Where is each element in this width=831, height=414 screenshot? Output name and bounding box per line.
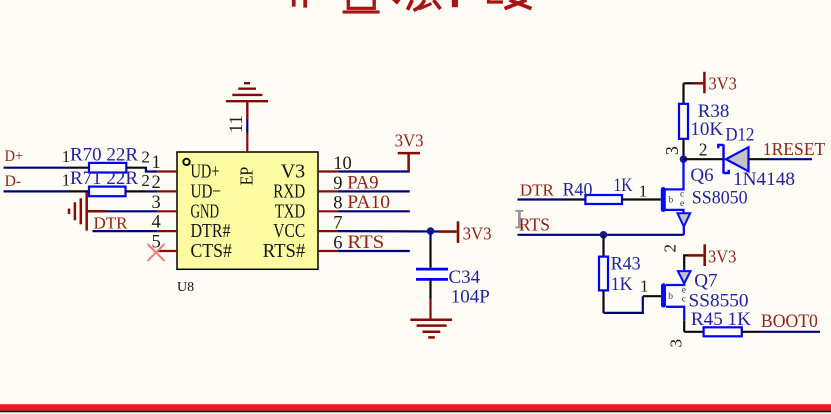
svg-text:R71 22R: R71 22R [70,168,138,189]
svg-text:2: 2 [151,173,160,193]
U8 left pin stubs (pins 1-5) [157,172,177,252]
power symbol 3V3 (top middle, T-bar style) [398,153,420,171]
U8 right pin stubs (pins 10-6) [318,172,338,252]
svg-text:3: 3 [667,339,686,348]
resistor R38 [679,104,688,139]
diode D12 triangle [726,147,749,171]
wire pin7 VCC [338,230,439,233]
wire DTR pin4 [93,230,158,232]
svg-text:GND: GND [191,200,220,222]
svg-text:D+: D+ [5,148,24,165]
U8 pin1 indicator circle [183,159,189,165]
svg-text:2: 2 [141,147,150,166]
svg-text:2: 2 [699,140,708,160]
junction RTS/R43 [600,231,608,239]
svg-text:RXD: RXD [273,181,305,203]
sheet title (partial, bottom of characters) [292,0,458,14]
wire node to D12 [684,158,724,160]
svg-text:U8: U8 [177,280,194,295]
svg-text:1: 1 [151,153,160,173]
svg-text:3V3: 3V3 [463,223,492,243]
wire EP to ground [246,120,248,133]
svg-text:DTR: DTR [520,180,555,199]
svg-text:1K: 1K [611,274,633,295]
svg-text:R70 22R: R70 22R [70,144,138,165]
svg-text:TXD: TXD [275,200,306,222]
no-ERC cross on pin5 CTS# [148,244,165,261]
svg-text:10K: 10K [690,119,723,140]
svg-text:3V3: 3V3 [395,131,424,151]
svg-text:BOOT0: BOOT0 [761,311,818,332]
diode D12 cathode bar [718,144,728,173]
svg-text:PA9: PA9 [347,172,378,193]
svg-text:c: c [682,294,686,304]
transistor Q6 SS8050 [661,190,666,210]
wire pin6 [338,250,410,252]
svg-text:2: 2 [661,244,680,253]
svg-text:11: 11 [227,115,247,133]
wire R70 to U8 pin1 [126,168,146,169]
svg-text:VCC: VCC [273,220,305,242]
U8 right pin numbers [333,154,352,254]
svg-text:R40: R40 [563,179,593,200]
svg-text:SS8050: SS8050 [692,188,748,209]
wire junction to R43 [602,235,604,257]
svg-text:DTR#: DTR# [191,220,231,242]
wire R38 to node [682,139,684,159]
ground symbol above EP [226,83,268,120]
transistor Q7 SS8550 [683,267,685,271]
svg-text:3V3: 3V3 [709,73,737,93]
U8 pin names right [263,161,305,263]
svg-text:V3: V3 [281,161,305,183]
U8 left pin numbers [151,153,160,253]
wire D12 to 1RESET [749,158,770,160]
wire R71 to U8 pin2 [126,190,147,192]
wire pin10 to 3V3 [338,170,410,172]
wire R45 to BOOT0 [742,331,760,333]
wire pin8 [338,210,410,212]
svg-text:e: e [680,199,684,209]
svg-text:1: 1 [62,147,71,166]
svg-text:b: b [669,195,674,205]
wire DTR to R40 [518,198,566,200]
svg-text:Q7: Q7 [694,271,717,292]
svg-text:D-: D- [5,173,22,190]
wire D- [4,190,69,192]
wire RTS [518,234,684,236]
svg-text:2: 2 [141,171,150,190]
svg-text:R45 1K: R45 1K [691,309,751,330]
svg-text:1: 1 [62,171,71,190]
junction R38/Q6/D12 [680,155,688,163]
svg-text:C34: C34 [449,267,481,288]
power symbol 3V3 (middle, sideways) [439,221,458,243]
resistor R43 [599,257,608,291]
text cursor I-beam artifact [515,211,523,228]
svg-text:3: 3 [662,146,682,155]
wire pin9 [338,190,410,192]
junction VCC/C34 [427,227,435,235]
svg-text:3V3: 3V3 [708,246,736,266]
power symbol 3V3 (top right) [684,82,695,84]
capacitor C34 [416,269,448,279]
wire R43 to Q7 base [602,290,604,313]
svg-text:1K: 1K [614,175,633,196]
wire D+ [4,167,69,169]
svg-text:4: 4 [151,213,160,233]
svg-text:UD−: UD− [191,181,222,203]
resistor R40 [585,195,622,204]
svg-text:RTS: RTS [347,232,384,253]
svg-text:1RESET: 1RESET [763,139,826,159]
sheet border bottom red bar [0,404,831,410]
svg-text:CTS#: CTS# [191,240,232,262]
svg-text:PA10: PA10 [347,192,390,213]
wire GND pin3 [106,210,158,212]
svg-text:RTS#: RTS# [263,240,305,262]
svg-text:RTS: RTS [519,215,550,235]
ground symbol below C34 [410,320,452,338]
sheet border black line [0,411,831,413]
svg-text:D12: D12 [725,124,754,145]
ground symbol (rotated) at U8 GND pin3 [69,192,106,231]
wire C34 to ground [429,279,431,298]
power symbol 3V3 (at Q7) [684,255,689,267]
wire junction down to C34 [429,231,431,240]
U8 top pin stub (pin 11 EP) [246,133,248,153]
wire Q7 collector to R45 [683,321,685,332]
resistor R71 [89,187,126,197]
wire 3V3 to R38 [682,83,684,104]
svg-text:b: b [668,292,673,302]
svg-text:EP: EP [236,167,256,186]
svg-text:UD+: UD+ [191,161,220,183]
resistor R70 [89,163,126,173]
wire R40 to Q6 base [622,198,661,200]
U8 pin names left [191,161,232,263]
svg-text:3: 3 [151,193,160,213]
svg-text:104P: 104P [451,286,490,307]
svg-text:1: 1 [640,276,649,295]
IC U8 body [177,152,318,269]
svg-text:DTR: DTR [94,213,129,232]
svg-text:1: 1 [639,182,648,201]
svg-text:Q6: Q6 [690,165,713,186]
resistor R45 [704,327,742,336]
svg-text:R43: R43 [611,254,641,275]
